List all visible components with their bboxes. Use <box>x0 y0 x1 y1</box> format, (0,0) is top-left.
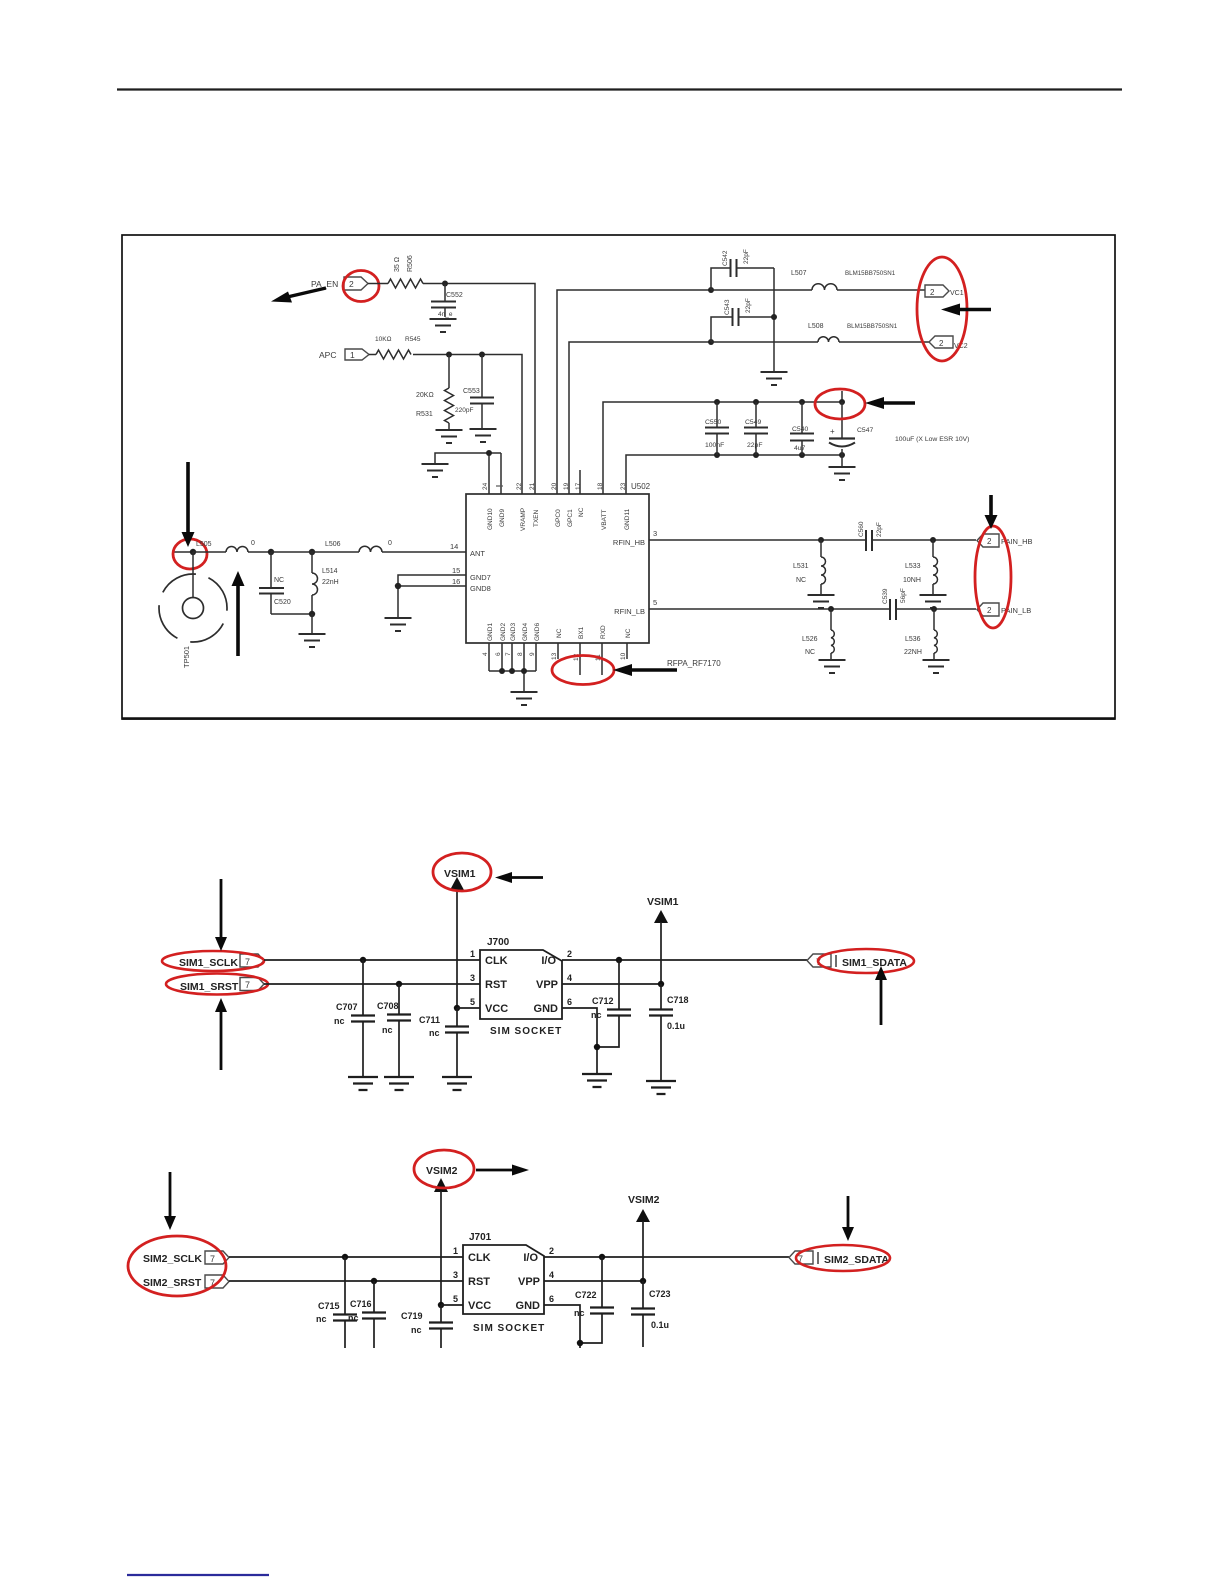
port 7 SIM1_SRST <box>180 978 264 994</box>
schematic frame border <box>122 235 1115 719</box>
svg-text:nc: nc <box>316 1314 327 1324</box>
pin GND3 (7) <box>505 623 517 656</box>
pin 2 <box>567 949 572 959</box>
svg-text:nc: nc <box>382 1025 393 1035</box>
svg-text:9: 9 <box>529 652 536 656</box>
pin VRAMP (22) <box>516 482 527 531</box>
red ellipse around SIM1_SCLK <box>162 951 264 971</box>
ground GND7/8 <box>385 618 412 631</box>
pin 2 <box>549 1246 554 1256</box>
node junction C708 <box>396 981 402 987</box>
svg-text:7: 7 <box>245 957 250 967</box>
svg-text:C547: C547 <box>857 427 873 434</box>
svg-text:2: 2 <box>930 288 935 297</box>
red ellipse around SIM1_SRST <box>166 974 268 995</box>
pin NC (10) <box>620 628 632 660</box>
wire GPC0 net <box>557 290 711 494</box>
ground under C708 <box>384 1077 414 1090</box>
ground under L533 <box>920 595 947 608</box>
node junction L514 <box>309 549 315 555</box>
svg-text:2: 2 <box>549 1246 554 1256</box>
svg-text:GND10: GND10 <box>487 508 494 530</box>
capacitor C718 0.1u <box>649 984 689 1080</box>
svg-text:3: 3 <box>470 973 475 983</box>
wire C542/C543 ground vertical <box>773 268 775 371</box>
svg-text:VSIM1: VSIM1 <box>444 868 476 880</box>
svg-text:VRAMP: VRAMP <box>520 508 527 531</box>
pin 4 <box>567 973 572 983</box>
inductor L533 10NH <box>903 540 938 594</box>
red ellipse around PAIN ports <box>975 526 1011 628</box>
svg-text:10NH: 10NH <box>903 577 921 584</box>
node junction APC/R531 <box>446 352 452 358</box>
arrow RFPA_RF7170 <box>613 659 721 676</box>
node VSIM2 power <box>426 1165 458 1305</box>
pin 5 <box>453 1294 458 1304</box>
node junction C712 <box>616 957 622 963</box>
svg-text:C553: C553 <box>463 388 480 395</box>
capacitor C550 100nF <box>705 402 729 455</box>
svg-text:2: 2 <box>987 537 992 546</box>
wire RFIN_HB line <box>649 539 976 541</box>
svg-text:R506: R506 <box>407 255 414 272</box>
svg-text:20KΩ: 20KΩ <box>416 392 434 399</box>
wire VPP line <box>562 983 661 985</box>
pin GND6 (9) <box>529 623 541 656</box>
svg-text:RST: RST <box>485 979 507 991</box>
svg-text:RST: RST <box>468 1276 490 1288</box>
svg-text:C560: C560 <box>858 521 865 537</box>
svg-text:CLK: CLK <box>468 1252 491 1264</box>
svg-text:C549: C549 <box>745 419 761 426</box>
svg-text:1: 1 <box>470 949 475 959</box>
svg-text:L536: L536 <box>905 636 921 643</box>
svg-text:0.1u: 0.1u <box>667 1021 685 1031</box>
svg-text:4: 4 <box>567 973 572 983</box>
wire RST line <box>264 983 480 985</box>
wire GND pin net <box>544 1305 580 1348</box>
svg-text:4: 4 <box>482 652 489 656</box>
port 2 VC2 <box>929 336 968 350</box>
ground under R531 <box>436 430 463 443</box>
footer rule <box>127 1574 269 1576</box>
svg-text:SIM SOCKET: SIM SOCKET <box>490 1026 562 1037</box>
node VSIM2 second power <box>628 1194 660 1281</box>
ground under C711 <box>442 1077 472 1090</box>
wire GND11 bottom bus <box>626 455 842 494</box>
svg-text:C708: C708 <box>377 1001 399 1011</box>
capacitor C722 nc <box>574 1257 614 1343</box>
svg-text:VSIM2: VSIM2 <box>628 1194 660 1206</box>
svg-text:24: 24 <box>482 482 489 490</box>
red ellipse around VC1/VC2 ports <box>917 257 967 361</box>
svg-text:GND9: GND9 <box>499 509 506 527</box>
svg-text:RFIN_LB: RFIN_LB <box>614 607 645 616</box>
port 2 PAIN_LB <box>977 603 1031 616</box>
resistor R545 <box>369 336 421 359</box>
svg-text:22: 22 <box>516 482 523 490</box>
svg-text:22nH: 22nH <box>322 579 339 586</box>
capacitor C560 22pF <box>858 521 883 551</box>
pin VBATT (18) <box>597 482 608 530</box>
svg-text:GND11: GND11 <box>624 508 631 530</box>
port 7 SIM2_SCLK <box>143 1251 229 1265</box>
svg-text:J701: J701 <box>469 1232 492 1243</box>
pin GND7 (15) <box>452 566 491 582</box>
svg-text:L507: L507 <box>791 270 807 277</box>
capacitor C552 <box>431 284 463 319</box>
red ellipse around VBATT junction <box>815 389 865 419</box>
svg-text:C719: C719 <box>401 1311 423 1321</box>
red circle around ANT junction <box>173 539 207 569</box>
capacitor C540 4u7 <box>790 402 814 455</box>
wire I/O line <box>544 1256 789 1258</box>
svg-text:APC: APC <box>319 350 336 360</box>
pin 3 <box>453 1270 458 1280</box>
wire GPC1 net <box>569 342 711 494</box>
node junction GPC1/C543 <box>708 339 714 345</box>
svg-text:13: 13 <box>551 652 558 660</box>
capacitor C539 56pF <box>882 588 907 620</box>
pin GND2 (6) <box>495 623 507 656</box>
arrow down at ANT junction <box>182 462 195 547</box>
wire CLK line <box>264 959 480 961</box>
svg-text:RFIN_HB: RFIN_HB <box>613 538 645 547</box>
capacitor C542 22pF <box>711 249 774 290</box>
svg-text:C722: C722 <box>575 1290 597 1300</box>
svg-text:nc: nc <box>411 1325 422 1335</box>
svg-text:VPP: VPP <box>536 979 558 991</box>
pin GND8 (16) <box>452 577 491 593</box>
wire I/O line <box>562 959 807 961</box>
pin GND1 (4) <box>482 623 494 656</box>
capacitor C543 22pF <box>711 298 774 342</box>
arrow down at SIM2_SCLK <box>164 1172 176 1230</box>
pin GPC0 (20) <box>551 482 562 527</box>
svg-text:VBATT: VBATT <box>601 510 608 530</box>
svg-text:SIM1_SCLK: SIM1_SCLK <box>179 957 238 969</box>
svg-text:16: 16 <box>452 577 460 586</box>
red circle around PA_EN port <box>343 271 379 302</box>
svg-text:2: 2 <box>987 606 992 615</box>
red ellipse around SIM1_SDATA <box>818 949 914 973</box>
svg-text:SIM2_SDATA: SIM2_SDATA <box>824 1254 889 1266</box>
ground under C707 <box>348 1077 378 1090</box>
svg-text:GPC1: GPC1 <box>567 509 574 527</box>
svg-text:GND7: GND7 <box>470 573 491 582</box>
node junction VPP/C718 <box>658 981 664 987</box>
node PA_EN <box>311 279 338 289</box>
red ellipse around VSIM2 <box>414 1150 474 1188</box>
ground under GND pin <box>582 1074 612 1087</box>
pin 5 <box>470 997 475 1007</box>
svg-text:6: 6 <box>549 1294 554 1304</box>
svg-text:BX1: BX1 <box>578 626 585 639</box>
arrow pointing right from VSIM2 <box>476 1165 529 1176</box>
wire junctions <box>271 551 359 553</box>
pin RFIN_LB (5) <box>614 598 657 616</box>
node junction L533 <box>930 537 936 543</box>
svg-text:VCC: VCC <box>485 1003 508 1015</box>
ground under L526 <box>819 660 846 673</box>
svg-text:L531: L531 <box>793 563 809 570</box>
svg-text:ANT: ANT <box>470 549 485 558</box>
pin GND9 <box>496 486 506 527</box>
svg-text:C539: C539 <box>882 588 889 604</box>
svg-text:3: 3 <box>653 529 657 538</box>
svg-text:100nF: 100nF <box>705 442 724 449</box>
svg-text:J700: J700 <box>487 937 510 948</box>
pin RFIN_HB (3) <box>613 529 657 547</box>
svg-text:7: 7 <box>245 980 250 990</box>
node junction GND7/8 <box>395 583 401 589</box>
pin GND10 (24) <box>482 482 494 530</box>
port 1 (APC) <box>345 349 369 360</box>
port 7 SIM2_SRST <box>143 1275 229 1289</box>
wire APC to VRAMP <box>413 355 522 495</box>
svg-text:22pF: 22pF <box>743 249 750 264</box>
ground under C718 <box>646 1081 676 1094</box>
inductor L507 BLM15BB750SN1 <box>711 270 925 290</box>
ground under C542/C543 <box>761 372 788 385</box>
inductor L536 22NH <box>904 609 937 659</box>
svg-text:C711: C711 <box>419 1015 440 1025</box>
svg-text:C550: C550 <box>705 419 721 426</box>
pin 3 <box>470 973 475 983</box>
wire GND pins bus <box>489 643 536 691</box>
svg-text:C715: C715 <box>318 1301 340 1311</box>
svg-text:I/O: I/O <box>541 955 556 967</box>
node ANT input junction <box>172 549 196 555</box>
arrow down at SIM2_SDATA <box>842 1196 854 1241</box>
svg-text:3: 3 <box>453 1270 458 1280</box>
node junction GND/C712 <box>594 1044 600 1050</box>
pin BX1 (12) <box>573 626 585 675</box>
node junction GND4 <box>521 668 527 674</box>
port 7 SIM1_SCLK <box>179 954 264 969</box>
svg-text:GND2: GND2 <box>500 623 507 641</box>
resistor R531 <box>416 355 454 430</box>
svg-text:NC: NC <box>796 577 806 584</box>
svg-text:4u7: 4u7 <box>794 445 806 452</box>
svg-text:0: 0 <box>251 540 255 547</box>
pin ANT (14) <box>450 542 485 558</box>
connector J700 SIM SOCKET <box>480 937 562 1037</box>
svg-text:VCC: VCC <box>468 1300 491 1312</box>
svg-text:6: 6 <box>567 997 572 1007</box>
svg-text:5: 5 <box>470 997 475 1007</box>
port 2 PAIN_HB <box>977 534 1033 547</box>
svg-text:0: 0 <box>388 540 392 547</box>
svg-text:BLM15BB750SN1: BLM15BB750SN1 <box>845 270 896 277</box>
node junction L536 <box>931 606 937 612</box>
port 2 (PA_EN) <box>344 277 368 290</box>
resistor R506 <box>368 255 423 288</box>
svg-text:L514: L514 <box>322 568 338 575</box>
svg-text:nc: nc <box>334 1016 345 1026</box>
node junction L531 <box>818 537 824 543</box>
svg-text:2: 2 <box>939 339 944 348</box>
node junction C715 <box>342 1254 348 1260</box>
pin 6 <box>567 997 572 1007</box>
node junction C520 <box>268 549 274 555</box>
node junction GND10 <box>486 450 492 456</box>
svg-text:C707: C707 <box>336 1002 358 1012</box>
node junction C716 <box>371 1278 377 1284</box>
svg-text:SIM SOCKET: SIM SOCKET <box>473 1323 545 1334</box>
node junction C707 <box>360 957 366 963</box>
svg-text:L533: L533 <box>905 563 921 570</box>
svg-text:0.1u: 0.1u <box>651 1320 669 1330</box>
port 7 SIM2_SDATA <box>789 1251 889 1266</box>
svg-text:VSIM1: VSIM1 <box>647 896 679 908</box>
svg-text:8: 8 <box>517 652 524 656</box>
pin NC (17) <box>575 470 585 517</box>
ground under L536 <box>923 660 950 673</box>
node junction GND3 <box>509 668 515 674</box>
node junctions bottom bus <box>714 452 845 458</box>
inductor L531 NC <box>793 540 826 595</box>
svg-text:GND4: GND4 <box>522 623 529 641</box>
svg-text:4n_e: 4n_e <box>438 311 453 318</box>
svg-text:7: 7 <box>505 652 512 656</box>
svg-text:2: 2 <box>349 279 354 289</box>
svg-text:NC: NC <box>805 649 815 656</box>
svg-text:RFPA_RF7170: RFPA_RF7170 <box>667 659 721 668</box>
node junction L514/C520 bottom <box>309 611 315 633</box>
wire RST line <box>229 1280 463 1282</box>
svg-text:220pF: 220pF <box>455 407 473 414</box>
pin GND4 (8) <box>517 623 529 656</box>
red ellipse around SIM2_SDATA <box>796 1245 890 1271</box>
wire RFIN_LB line <box>649 608 976 610</box>
svg-text:BLM15BB750SN1: BLM15BB750SN1 <box>847 323 898 330</box>
svg-text:GND: GND <box>534 1003 559 1015</box>
ground at GND9/GND10 <box>422 464 449 477</box>
svg-text:GPC0: GPC0 <box>555 509 562 527</box>
inductor L526 NC <box>802 609 834 659</box>
svg-text:NC: NC <box>625 628 632 638</box>
svg-text:SIM1_SRST: SIM1_SRST <box>180 981 239 993</box>
svg-text:C520: C520 <box>274 599 291 606</box>
svg-text:5: 5 <box>653 598 657 607</box>
pin NC (13) <box>551 628 563 660</box>
ground under L531 <box>808 595 835 608</box>
svg-text:14: 14 <box>450 542 458 551</box>
svg-text:C716: C716 <box>350 1299 372 1309</box>
svg-text:17: 17 <box>575 482 582 490</box>
arrow up at SIM1_SRST <box>215 998 227 1070</box>
svg-text:C712: C712 <box>592 996 614 1006</box>
svg-text:GND: GND <box>516 1300 541 1312</box>
capacitor C715 nc <box>316 1257 357 1348</box>
node junction VPP/C723 <box>640 1278 646 1284</box>
svg-text:I/O: I/O <box>523 1252 538 1264</box>
inductor L508 BLM15BB750SN1 <box>711 323 929 342</box>
svg-text:2: 2 <box>567 949 572 959</box>
svg-text:VC1: VC1 <box>950 290 964 297</box>
node junction GND/C722 <box>577 1340 583 1346</box>
node APC <box>319 350 336 360</box>
node junction VCC/VSIM2 <box>438 1302 463 1308</box>
wire VBATT top bus <box>603 391 842 494</box>
svg-text:L505: L505 <box>196 541 212 548</box>
svg-text:35 Ω: 35 Ω <box>394 257 401 272</box>
svg-text:R545: R545 <box>405 336 421 343</box>
red ellipse around SIM2_SCLK/SRST <box>128 1236 226 1296</box>
arrow pointing to VBATT junction <box>865 397 915 409</box>
svg-text:NC: NC <box>274 577 284 584</box>
svg-text:1: 1 <box>350 350 355 360</box>
ground under C547 <box>829 467 856 480</box>
ground under L514 <box>299 634 326 647</box>
inductor L514 22nH <box>312 552 339 614</box>
svg-text:NC: NC <box>578 507 585 517</box>
node junction GND2 <box>499 668 505 674</box>
svg-text:TXEN: TXEN <box>533 509 540 527</box>
svg-text:22pF: 22pF <box>747 442 763 449</box>
red ellipse around VSIM1 <box>433 853 491 891</box>
svg-text:VPP: VPP <box>518 1276 540 1288</box>
arrow down at PAIN_HB <box>985 495 998 529</box>
svg-text:nc: nc <box>348 1313 359 1323</box>
svg-text:7: 7 <box>210 1254 215 1264</box>
arrow up near TP501 <box>232 571 245 656</box>
op-amp U1 : RF PA chip U502 body <box>466 482 651 643</box>
svg-text:GND6: GND6 <box>534 623 541 641</box>
ground under C552 <box>430 319 457 332</box>
ground under C553 <box>470 429 497 442</box>
svg-text:R531: R531 <box>416 411 433 418</box>
capacitor C553 <box>455 355 494 429</box>
pin GPC1 (19) <box>563 482 574 527</box>
wire CLK line <box>229 1256 463 1258</box>
pin TXEN (21) <box>529 482 540 527</box>
node junction C722 <box>599 1254 605 1260</box>
svg-text:22pF: 22pF <box>745 298 752 313</box>
svg-text:SIM2_SRST: SIM2_SRST <box>143 1277 202 1289</box>
node VSIM1 second power <box>647 896 679 984</box>
red ellipse around pins 12/11 <box>552 656 614 685</box>
svg-text:6: 6 <box>495 652 502 656</box>
node junction GPC0/C542 <box>708 287 714 293</box>
svg-text:TP501: TP501 <box>182 646 191 668</box>
svg-text:10: 10 <box>620 652 627 660</box>
arrow pointing to VSIM1 <box>495 872 543 883</box>
svg-text:RXD: RXD <box>600 625 607 639</box>
pin 1 <box>453 1246 458 1256</box>
svg-text:C718: C718 <box>667 995 689 1005</box>
arrow pointing to VC ports <box>941 304 991 316</box>
svg-text:SIM1_SDATA: SIM1_SDATA <box>842 957 907 969</box>
ground under U502 <box>511 692 538 705</box>
arrow down at SIM1_SCLK <box>215 879 227 951</box>
svg-text:GND1: GND1 <box>487 623 494 641</box>
capacitor C549 22pF <box>744 402 768 455</box>
capacitor C708 nc <box>377 984 411 1076</box>
port 7 SIM1_SDATA <box>807 954 907 969</box>
capacitor C547 100uF electrolytic <box>829 402 969 455</box>
svg-text:NC: NC <box>556 628 563 638</box>
pin 4 <box>549 1270 554 1280</box>
svg-text:1: 1 <box>453 1246 458 1256</box>
header rule <box>117 88 1122 90</box>
svg-text:L526: L526 <box>802 636 818 643</box>
node junctions top bus <box>714 399 845 405</box>
svg-text:+: + <box>830 427 835 436</box>
svg-text:SIM2_SCLK: SIM2_SCLK <box>143 1253 202 1265</box>
svg-text:C552: C552 <box>446 292 463 299</box>
